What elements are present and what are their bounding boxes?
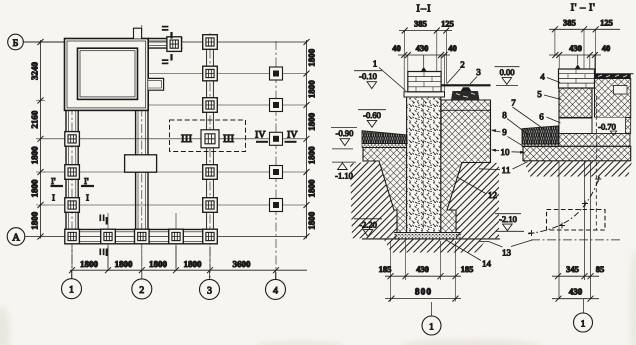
svg-text:40: 40 [392, 43, 401, 53]
svg-text:IV: IV [287, 130, 298, 141]
isolated footing axis4 row5 [270, 166, 283, 179]
pier axis3 row3 [203, 98, 218, 113]
svg-text:185: 185 [379, 264, 392, 274]
callout 10 double leader [491, 147, 526, 157]
svg-text:385: 385 [563, 17, 576, 27]
svg-text:6: 6 [539, 112, 544, 122]
wall axis2 widened block [125, 155, 157, 172]
svg-text:-0.60: -0.60 [363, 110, 381, 120]
elevation mark -2.20 [354, 219, 382, 237]
svg-text:10: 10 [501, 147, 511, 157]
witness lines top dims [555, 29, 596, 74]
room inner wall face [78, 48, 138, 99]
axis line 2b vertical [175, 213, 177, 271]
blind area slab right dark band [595, 74, 634, 79]
bedding strip under blind area [362, 144, 407, 148]
axis line 3 vertical [209, 33, 211, 279]
svg-text:125: 125 [441, 19, 454, 29]
svg-text:1800: 1800 [80, 259, 99, 269]
grid row line 2 [148, 73, 306, 75]
callout 14 [446, 240, 492, 269]
svg-text:800: 800 [415, 288, 432, 298]
right dimension line [306, 40, 308, 239]
foundation strip axis 3 [206, 47, 208, 229]
horizontal dash-dot reference line [531, 239, 621, 241]
grid row line Б [23, 41, 307, 43]
callout 1 [373, 59, 406, 91]
svg-text:345: 345 [566, 264, 579, 274]
pier axis2b row А [169, 229, 184, 244]
svg-text:40: 40 [448, 43, 457, 53]
svg-text:8: 8 [502, 110, 507, 120]
svg-text:1800: 1800 [307, 48, 317, 66]
svg-text:-2.10: -2.10 [499, 214, 517, 224]
wall on axis Б right of room [148, 38, 182, 40]
long witness lines down to bottom dims [559, 161, 591, 299]
svg-text:385: 385 [414, 19, 427, 29]
pier axis3 row5 [203, 165, 218, 180]
svg-text:13: 13 [502, 248, 512, 258]
svg-text:1: 1 [373, 59, 378, 69]
bottom dim line 430 [552, 287, 599, 302]
callout 9 double leader [491, 127, 524, 146]
svg-text:I': I' [84, 176, 89, 186]
svg-text:Ш: Ш [223, 133, 234, 145]
right edge hatch strip [626, 118, 631, 134]
svg-text:1800: 1800 [307, 112, 317, 130]
axis circle 1 [62, 270, 82, 299]
dashed box section III around axis3 pier [170, 120, 246, 152]
svg-text:А: А [12, 233, 20, 244]
white strip at -0.70 level [559, 118, 627, 134]
blind area wedge left of wall [522, 126, 559, 144]
rubble concrete wall column [407, 96, 441, 233]
svg-text:I: I [52, 193, 55, 203]
right side masonry block [595, 79, 631, 118]
pier axis Б at x 174 section II [167, 37, 182, 52]
grid row line 3 [148, 104, 306, 106]
sand-gravel bed under footing [394, 233, 461, 239]
plus marker a [529, 230, 535, 236]
svg-text:IV: IV [255, 130, 266, 141]
brick wall above foundation [408, 72, 441, 92]
plus marker c [582, 201, 588, 207]
bottom dim line 185-430-185 [379, 264, 474, 279]
bottom dim ticks [69, 267, 279, 273]
elevation mark 0.00 [495, 67, 520, 86]
svg-text:1800: 1800 [30, 179, 40, 198]
plus marker b [559, 223, 565, 229]
isolated footing axis4 row2 [270, 67, 283, 80]
section axis circle 1 [422, 302, 441, 335]
callout 12 [457, 177, 497, 200]
svg-text:I': I' [51, 176, 56, 186]
right block band division line [441, 109, 491, 111]
svg-text:-1.10: -1.10 [335, 171, 353, 181]
crosshatch band below -0.70 strip [559, 134, 630, 147]
svg-text:3600: 3600 [233, 259, 252, 269]
elevation mark -2.10 [495, 214, 524, 232]
plus marker d [595, 176, 601, 182]
axis line 4 vertical [275, 41, 277, 279]
axis circle 2 [132, 270, 152, 299]
callout 7 [511, 98, 543, 129]
svg-text:2: 2 [139, 285, 144, 296]
svg-text:5: 5 [537, 89, 542, 99]
callout 5 [537, 89, 561, 100]
svg-text:1: 1 [581, 320, 586, 330]
axis circle Б [8, 34, 65, 50]
svg-text:1: 1 [69, 285, 74, 296]
axis circle 3 [200, 270, 220, 299]
svg-text:14: 14 [482, 259, 492, 269]
isolated footing axis4 row4 [270, 132, 283, 145]
svg-text:-2.20: -2.20 [359, 219, 377, 229]
pier axis1 row А [65, 229, 80, 244]
foundation block below wall [559, 88, 592, 118]
wide foundation pad [523, 146, 631, 161]
wall axis mark triangle [575, 64, 581, 69]
svg-text:3: 3 [207, 285, 212, 296]
top wall stub above room [134, 28, 142, 38]
pier axis3 row6 [203, 198, 218, 213]
svg-text:3: 3 [476, 67, 481, 77]
svg-text:1: 1 [429, 323, 434, 333]
section axis circle 1 [574, 299, 593, 332]
axis line 1 vertical [71, 40, 73, 279]
svg-text:1800: 1800 [30, 146, 40, 165]
second dim line 40-430-40 [392, 43, 457, 58]
bottom dim line 800 [385, 288, 461, 302]
svg-text:1800: 1800 [307, 80, 317, 99]
brick wall [559, 69, 595, 88]
influence dash-dot curve [528, 176, 600, 234]
foundation ledge top [404, 92, 445, 97]
svg-text:Ш: Ш [181, 133, 192, 145]
section cut strokes I-prime [51, 185, 64, 187]
svg-text:40: 40 [602, 43, 611, 53]
top dim line 385-125 [399, 19, 454, 34]
svg-text:1800: 1800 [30, 211, 40, 230]
svg-text:7: 7 [511, 98, 516, 108]
bottom dim witness lines [391, 241, 456, 302]
svg-text:2160: 2160 [30, 110, 40, 129]
witness lines top dims [404, 31, 446, 92]
wall axis2 below room [135, 110, 137, 154]
floor slab thick line [441, 84, 491, 86]
bedding strip under left wedge [522, 144, 559, 147]
axis circle А [7, 228, 25, 246]
callout 4 [540, 72, 560, 83]
pier axis1 row4 [65, 132, 80, 147]
svg-text:1800: 1800 [307, 211, 317, 230]
dashed projection line [595, 96, 597, 230]
floor plinth block [451, 87, 480, 100]
svg-text:I' – I': I' – I' [571, 3, 596, 14]
second dim line 430-40 [549, 43, 610, 58]
ground line at excavation bottom [362, 238, 500, 240]
section mark II bottom: cut strokes and labels [106, 217, 108, 225]
wall axis witness line [577, 55, 579, 64]
left dimension line [40, 40, 42, 239]
svg-text:-0.70: -0.70 [598, 122, 616, 132]
svg-text:I: I [86, 193, 89, 203]
masonry foundation cross-hatched body [363, 100, 491, 233]
callout 6 [539, 112, 560, 124]
isolated footing axis4 row6 [270, 199, 283, 212]
svg-text:11: 11 [502, 165, 511, 175]
axis line 1b vertical [107, 213, 109, 271]
grid row line 6 [44, 204, 307, 206]
wall axis1 below room [65, 110, 67, 229]
callout 11 double leader [479, 162, 528, 175]
pier axis1 row5 [65, 165, 80, 180]
svg-text:430: 430 [569, 43, 582, 53]
svg-text:1800: 1800 [307, 146, 317, 165]
axis line 2 vertical [141, 25, 143, 279]
svg-text:1800: 1800 [149, 259, 168, 269]
svg-text:-0.90: -0.90 [336, 128, 354, 138]
svg-text:4: 4 [273, 285, 278, 296]
isolated footing axis4 row3 [270, 99, 283, 112]
svg-text:I–I: I–I [416, 4, 431, 15]
pier axis3 row А [203, 229, 218, 244]
soil hatch under pad [524, 162, 632, 177]
white step notch right [614, 86, 628, 95]
room outer wall rectangle [65, 39, 149, 111]
svg-text:430: 430 [416, 43, 429, 53]
svg-text:3240: 3240 [30, 62, 40, 81]
svg-text:1800: 1800 [115, 259, 134, 269]
pier axis3 row4 larger section III [201, 130, 219, 148]
callout 3 [470, 67, 481, 84]
soil hatch right of foundation [447, 163, 499, 238]
scan smudges [0, 250, 636, 345]
bottom dim line 345-85 [552, 264, 604, 279]
elevation mark -1.10 underside [332, 162, 356, 180]
svg-text:4: 4 [540, 72, 545, 82]
bottom dimension line [70, 269, 307, 271]
right dim ticks [304, 39, 310, 240]
svg-text:125: 125 [600, 17, 613, 27]
wall on axis А [65, 228, 217, 230]
svg-text:85: 85 [596, 264, 605, 274]
left dim ticks [38, 39, 44, 240]
elevation mark -0.70 [598, 122, 617, 136]
callout 8 [502, 110, 530, 136]
grid row line 5 [44, 171, 307, 173]
right wall niche protrusion [148, 78, 163, 90]
pier axis2 row А [135, 229, 150, 244]
pier axis1 row6 [65, 198, 80, 213]
elevation mark -0.10 [354, 71, 382, 89]
pier axis3 row2 [203, 66, 218, 81]
svg-text:1800: 1800 [184, 259, 203, 269]
callout 2 [447, 60, 465, 84]
section mark II top: cut strokes and labels [170, 32, 172, 39]
bottom dim witness lines [72, 246, 210, 268]
svg-text:12: 12 [488, 190, 497, 200]
pier axis3 row Б [203, 35, 218, 50]
elevation mark -0.90 [331, 127, 357, 148]
wall axis2 lower part [135, 172, 137, 229]
svg-text:2: 2 [460, 60, 465, 70]
grid row line А [25, 236, 307, 238]
svg-text:-0.10: -0.10 [359, 71, 377, 81]
soil hatch left of foundation [350, 161, 397, 238]
callout 13 double leader [480, 240, 533, 258]
svg-text:1800: 1800 [307, 179, 317, 198]
svg-text:Б: Б [13, 38, 19, 49]
elevation mark -0.60 [358, 110, 386, 128]
wall axis mark triangle [421, 67, 427, 72]
axis circle 4 [266, 270, 286, 299]
pier axis1b row А [101, 229, 116, 244]
svg-text:430: 430 [569, 287, 583, 297]
svg-text:185: 185 [461, 264, 474, 274]
svg-text:0.00: 0.00 [500, 67, 515, 77]
svg-text:430: 430 [416, 264, 429, 274]
svg-text:9: 9 [502, 127, 507, 137]
blind area wedge left [362, 131, 407, 144]
top dim line 385-125 [549, 17, 620, 32]
soil hatch under bed [384, 240, 486, 253]
dashed rectangle detail zone [547, 210, 606, 231]
grid row line 4 [44, 138, 307, 140]
wall axis witness line [423, 55, 425, 67]
